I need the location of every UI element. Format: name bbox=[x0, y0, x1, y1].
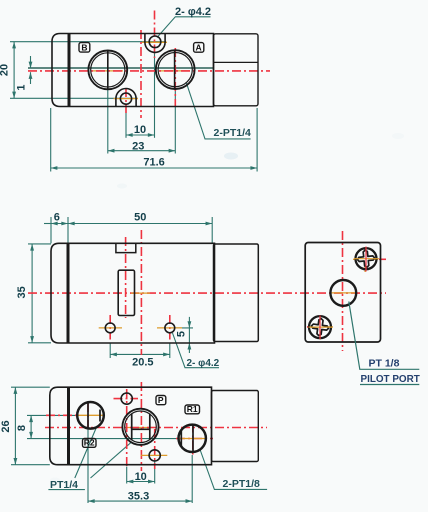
svg-text:35: 35 bbox=[16, 286, 28, 298]
svg-text:A: A bbox=[196, 42, 202, 52]
svg-text:P: P bbox=[158, 395, 164, 405]
svg-text:PT 1/8: PT 1/8 bbox=[369, 358, 400, 370]
svg-text:8: 8 bbox=[16, 425, 28, 431]
svg-text:PILOT PORT: PILOT PORT bbox=[361, 374, 420, 385]
svg-text:2-PT1/8: 2-PT1/8 bbox=[223, 478, 261, 490]
svg-text:B: B bbox=[81, 43, 87, 53]
svg-text:R2: R2 bbox=[84, 438, 95, 448]
svg-text:6: 6 bbox=[54, 212, 60, 224]
svg-text:2- φ4.2: 2- φ4.2 bbox=[187, 358, 220, 369]
svg-text:R1: R1 bbox=[187, 404, 198, 414]
svg-text:2-PT1/4: 2-PT1/4 bbox=[214, 127, 252, 139]
svg-text:35.3: 35.3 bbox=[128, 491, 149, 503]
svg-text:20.5: 20.5 bbox=[132, 357, 153, 369]
svg-text:PT1/4: PT1/4 bbox=[50, 479, 78, 491]
svg-text:1: 1 bbox=[16, 84, 28, 90]
svg-text:50: 50 bbox=[134, 212, 146, 224]
svg-text:20: 20 bbox=[0, 64, 11, 76]
svg-text:10: 10 bbox=[135, 471, 147, 483]
svg-text:2- φ4.2: 2- φ4.2 bbox=[175, 6, 211, 18]
svg-text:5: 5 bbox=[176, 331, 188, 337]
svg-text:23: 23 bbox=[132, 140, 144, 152]
svg-text:71.6: 71.6 bbox=[143, 157, 164, 169]
svg-text:26: 26 bbox=[0, 420, 12, 432]
svg-text:10: 10 bbox=[134, 124, 146, 136]
